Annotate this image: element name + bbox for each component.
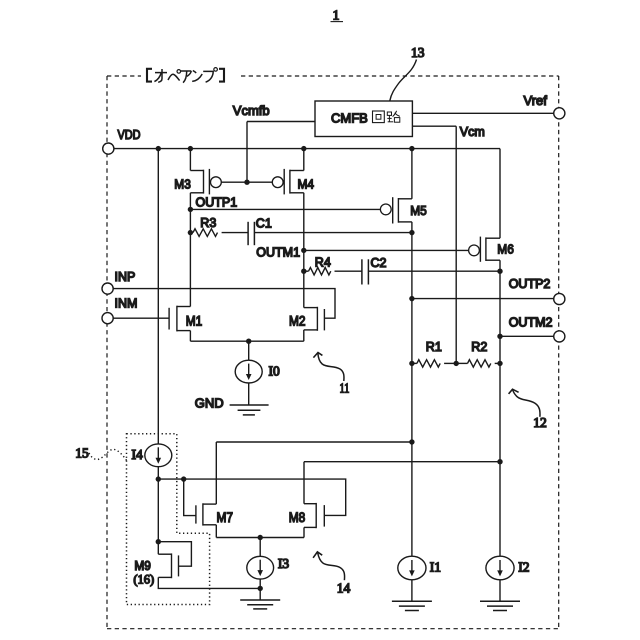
transistor M2 (NMOS) bbox=[304, 307, 325, 331]
svg-text:(16): (16) bbox=[133, 573, 154, 587]
svg-text:M2: M2 bbox=[289, 314, 306, 329]
wire: M8 drain vertical bbox=[303, 462, 305, 504]
junction on rail at x412 bbox=[409, 146, 414, 151]
wire: INM to M1 gate bbox=[113, 317, 169, 319]
terminal INM bbox=[102, 313, 113, 324]
svg-text:12: 12 bbox=[533, 415, 547, 430]
svg-text:Vcmfb: Vcmfb bbox=[233, 103, 270, 118]
wire: I3 to ground bbox=[259, 579, 261, 600]
outer dashed boundary box of op-amp 10 bbox=[107, 76, 559, 629]
wire: M3 drain down to M1 drain (OUTP1 node) bbox=[189, 193, 191, 307]
ground below I3 bbox=[240, 600, 280, 609]
wire: M4 drain down to M2 drain (OUTM1 node) bbox=[303, 193, 305, 308]
reference numeral 11 with arrow bbox=[313, 353, 349, 396]
junction on rail at x158 bbox=[156, 146, 161, 151]
junction C1 right at M5 drain bbox=[409, 230, 414, 235]
wire: cross line from M7 drain to OUTP2 line bbox=[216, 441, 412, 443]
capacitor C2 bbox=[362, 259, 500, 284]
reference numeral 15 with dotted leader bbox=[75, 446, 127, 461]
svg-text:R1: R1 bbox=[426, 340, 442, 354]
terminal INP bbox=[102, 283, 113, 294]
wire: Vcmfb from CMFB box left bbox=[247, 121, 315, 123]
reference numeral 14 with arrow bbox=[313, 552, 350, 596]
svg-text:OUTP1: OUTP1 bbox=[196, 195, 238, 209]
leader line from 13 to CMFB box bbox=[390, 60, 417, 101]
wire: Vcmfb vertical down to M3/M4 gates bbox=[246, 122, 248, 183]
caption opamp (katakana) bbox=[147, 68, 224, 83]
wire: left bias line from VDD down to I4 bbox=[157, 149, 159, 444]
wire: VDD rail bbox=[114, 148, 500, 150]
svg-text:M1: M1 bbox=[186, 314, 203, 329]
junction OUTP1 bbox=[188, 207, 193, 212]
terminal Vref bbox=[554, 108, 565, 119]
current source I3 bbox=[247, 556, 274, 579]
svg-text:M4: M4 bbox=[298, 176, 315, 191]
junction C2 right at M6 drain bbox=[497, 269, 502, 274]
svg-text:M9: M9 bbox=[134, 559, 151, 573]
svg-text:15: 15 bbox=[75, 446, 89, 461]
junction R1 left bbox=[409, 361, 414, 366]
wire: I4 to bias node bbox=[157, 467, 159, 479]
svg-text:C2: C2 bbox=[371, 256, 387, 270]
svg-text:M6: M6 bbox=[497, 242, 514, 257]
svg-text:M7: M7 bbox=[217, 510, 234, 525]
svg-text:OUTM2: OUTM2 bbox=[509, 316, 553, 330]
svg-text:M5: M5 bbox=[410, 203, 427, 218]
svg-text:13: 13 bbox=[411, 45, 425, 60]
wire: common source of M1/M2 bbox=[190, 340, 303, 342]
wire: bias node down to M9 bbox=[157, 479, 159, 542]
wire: Vref from CMFB box to terminal bbox=[412, 112, 553, 114]
resistor R1 bbox=[412, 360, 456, 367]
terminal OUTP2 bbox=[554, 293, 565, 304]
wire: M5 drain long vertical down to I1 bbox=[411, 222, 413, 557]
transistor M5 (PMOS) bbox=[380, 149, 412, 224]
transistor M8 (NMOS) bbox=[304, 503, 324, 528]
svg-text:I4: I4 bbox=[132, 447, 143, 462]
svg-text:I3: I3 bbox=[278, 556, 289, 571]
junction R4 left bbox=[301, 269, 306, 274]
junction at OUTM2 line bbox=[497, 459, 502, 464]
capacitor C1 bbox=[248, 222, 412, 245]
wire: Vcm vertical down to R1/R2 midpoint bbox=[455, 126, 457, 363]
transistor M6 (PMOS) bbox=[469, 149, 500, 262]
junction R2 right bbox=[497, 361, 502, 366]
wire: OUTP1 to M5 gate bbox=[190, 208, 380, 210]
svg-text:INP: INP bbox=[115, 270, 136, 284]
transistor M1 (NMOS) bbox=[169, 306, 190, 332]
wire: Vcm from CMFB box right to vertical bbox=[412, 125, 456, 127]
terminal OUTM2 bbox=[554, 331, 565, 342]
wire: OUTM2 bbox=[500, 335, 554, 337]
svg-text:I2: I2 bbox=[518, 559, 529, 574]
junction R1/R2 midpoint Vcm tap bbox=[454, 361, 459, 366]
svg-text:I1: I1 bbox=[430, 559, 441, 574]
svg-text:Vref: Vref bbox=[524, 93, 548, 108]
wire: M7 gate tap bbox=[184, 479, 196, 515]
junction common source 78 bbox=[258, 535, 263, 540]
svg-text:M8: M8 bbox=[289, 510, 306, 525]
wire: INP to M2 gate bbox=[113, 289, 335, 319]
dotted box 15 around I4 and M9 bbox=[127, 434, 210, 605]
wire: down to I0 bbox=[248, 341, 250, 360]
wire: M7 drain vertical bbox=[215, 442, 217, 504]
transistor M3 (PMOS) bbox=[190, 149, 221, 195]
wire: I4 bias line to M7/M8 gates bbox=[158, 479, 345, 515]
wire: OUTP2 bbox=[412, 298, 554, 300]
figure number 1 title bbox=[331, 9, 344, 24]
svg-text:11: 11 bbox=[340, 380, 350, 395]
ground below I0 bbox=[230, 405, 269, 415]
resistor R2 bbox=[456, 360, 500, 367]
CMFB circuit block U13 bbox=[315, 101, 412, 137]
resistor R3 bbox=[190, 229, 248, 237]
wire: M6 drain long vertical down to I2 bbox=[499, 260, 501, 556]
svg-text:R2: R2 bbox=[471, 340, 487, 354]
current source I0 bbox=[235, 360, 262, 383]
junction common source bbox=[246, 339, 251, 344]
junction at OUTP2 line bbox=[409, 439, 414, 444]
wire: OUTM1 to M6 gate bbox=[304, 249, 469, 251]
svg-text:Vcm: Vcm bbox=[460, 125, 485, 139]
junction R3 left bbox=[188, 230, 193, 235]
current source I1 bbox=[398, 556, 426, 580]
svg-text:OUTP2: OUTP2 bbox=[509, 277, 551, 291]
transistor M4 (PMOS) bbox=[272, 149, 303, 195]
current source I4 bbox=[145, 444, 172, 467]
junction OUTM2 bbox=[497, 334, 502, 339]
current source I2 bbox=[486, 556, 514, 580]
resistor R4 bbox=[304, 268, 362, 275]
svg-text:INM: INM bbox=[115, 297, 138, 311]
wire: I2 to ground bbox=[499, 580, 501, 602]
svg-text:14: 14 bbox=[337, 581, 351, 596]
svg-text:R3: R3 bbox=[200, 216, 216, 230]
wire: M9 source to I3 ground node bbox=[158, 577, 260, 588]
svg-text:C1: C1 bbox=[256, 216, 272, 230]
junction M9 drain bbox=[156, 539, 161, 544]
ground below I2 bbox=[480, 601, 520, 610]
reference numeral 12 with arrow bbox=[509, 389, 547, 430]
svg-text:I0: I0 bbox=[269, 364, 280, 379]
transistor M7 (NMOS) bbox=[196, 503, 216, 525]
wire: gate line M3-M4 bbox=[221, 181, 272, 183]
svg-text:R4: R4 bbox=[315, 256, 331, 270]
terminal VDD bbox=[103, 143, 114, 154]
wire: M8 source down bbox=[303, 527, 305, 537]
wire: M1 source down bbox=[189, 331, 191, 342]
transistor M9 (NMOS diode-connected) bbox=[158, 542, 191, 579]
svg-text:VDD: VDD bbox=[118, 128, 141, 142]
wire: M7 source down bbox=[215, 525, 217, 538]
junction bias at M7 gate bbox=[181, 476, 186, 481]
junction M9 source / I3 ground bbox=[258, 586, 263, 591]
wire: down to I3 bbox=[259, 538, 261, 557]
junction bias at I4 bbox=[156, 476, 161, 481]
wire: M2 source down bbox=[303, 330, 305, 341]
junction OUTP2 bbox=[409, 296, 414, 301]
ground below I1 bbox=[392, 601, 432, 610]
junction OUTM1 bbox=[301, 248, 306, 253]
junction on rail at x190 bbox=[188, 146, 193, 151]
wire: I1 to ground bbox=[411, 580, 413, 602]
svg-text:CMFB: CMFB bbox=[331, 111, 368, 126]
svg-text:GND: GND bbox=[195, 395, 224, 410]
junction on rail at x304 bbox=[301, 146, 306, 151]
wire: common source of M7/M8 bbox=[216, 537, 304, 539]
junction gate node bbox=[244, 180, 249, 185]
wire: I0 to ground bbox=[248, 383, 250, 405]
svg-text:OUTM1: OUTM1 bbox=[256, 246, 300, 260]
svg-text:M3: M3 bbox=[174, 176, 191, 191]
wire: cross line from M8 drain to OUTM2 line bbox=[304, 461, 500, 463]
